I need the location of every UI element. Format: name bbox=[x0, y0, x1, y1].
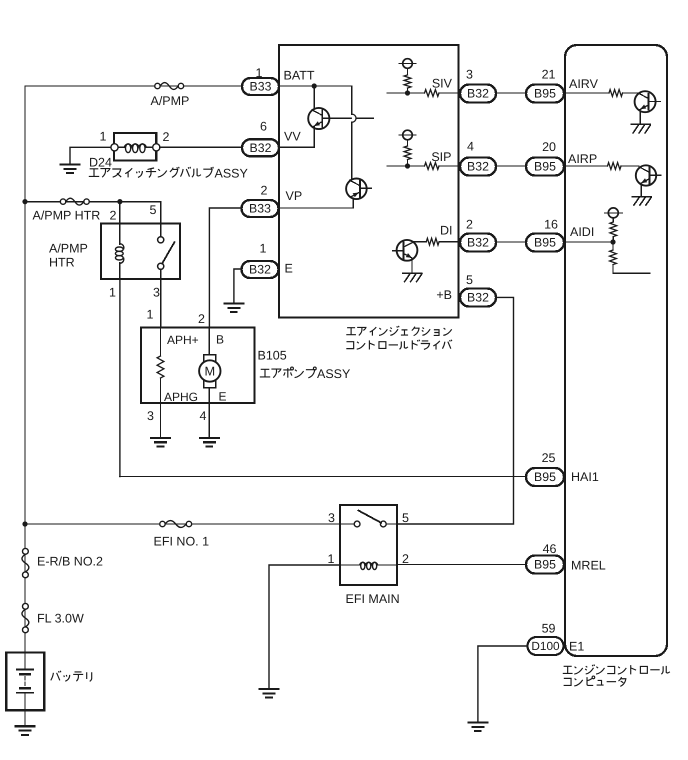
wire battery to ground bbox=[24, 710, 26, 725]
svg-text:25: 25 bbox=[542, 451, 556, 465]
svg-text:E1: E1 bbox=[569, 640, 584, 654]
EFI MAIN switch contacts bbox=[340, 521, 397, 527]
wire Q1 emitter to VV bbox=[279, 127, 314, 148]
svg-text:B32: B32 bbox=[249, 263, 271, 277]
svg-text:1: 1 bbox=[147, 308, 154, 322]
label driver (katakana line2) bbox=[346, 340, 452, 350]
connector B32 pin 4 (SIP) bbox=[460, 140, 496, 176]
transistor Q4 (AIRV) bbox=[635, 91, 656, 112]
svg-text:4: 4 bbox=[200, 409, 207, 423]
power symbol SIV pull-up bbox=[399, 59, 416, 69]
junction BATT node bbox=[312, 83, 317, 88]
wire +B to EFI MAIN pin5 bbox=[397, 297, 514, 524]
relay coil (A/PMP HTR) bbox=[115, 224, 123, 280]
label A/PMP HTR (relay) bbox=[49, 242, 88, 270]
label SIP bbox=[431, 150, 451, 164]
wire Q5 emitter to ground bbox=[640, 185, 642, 196]
wire Q1 base stub with hop bbox=[322, 114, 373, 122]
junction bus to A/PMP HTR bbox=[22, 199, 27, 204]
svg-text:E: E bbox=[219, 390, 227, 404]
connector B95 pin 16 (AIDI) bbox=[526, 218, 564, 252]
ground EFI MAIN bbox=[260, 689, 279, 698]
svg-text:5: 5 bbox=[402, 511, 409, 525]
wire DI to ECU bbox=[496, 241, 527, 243]
EFI MAIN switch blade bbox=[358, 511, 381, 523]
wire relay pin1 down bbox=[119, 279, 121, 477]
pin label B105-4 bbox=[200, 409, 207, 423]
label VV bbox=[284, 130, 301, 144]
label APH+ bbox=[167, 333, 199, 347]
wire B105 pin3 to ground bbox=[160, 403, 162, 437]
svg-text:B33: B33 bbox=[250, 80, 272, 94]
svg-text:16: 16 bbox=[544, 218, 558, 232]
fusible link FL 3.0W bbox=[22, 603, 84, 632]
svg-text:1: 1 bbox=[100, 130, 107, 144]
ground B105 pin4 bbox=[200, 438, 219, 447]
wire A/PMP HTR feed bbox=[25, 202, 161, 224]
ground battery bbox=[16, 726, 35, 735]
coil L1 in D24 bbox=[118, 144, 154, 153]
svg-text:HTR: HTR bbox=[49, 256, 75, 270]
pin label relay-1 bbox=[109, 286, 116, 300]
svg-text:D24: D24 bbox=[89, 156, 112, 170]
svg-text:EFI MAIN: EFI MAIN bbox=[346, 592, 400, 606]
svg-text:B95: B95 bbox=[534, 558, 556, 572]
component D24 box (air switching valve) bbox=[114, 133, 156, 161]
connector B95 pin 21 (AIRV) bbox=[526, 68, 564, 103]
connector D100 pin 59 (E1) bbox=[528, 622, 564, 656]
wire SIV internal bbox=[387, 92, 458, 94]
wire SIV to ECU bbox=[496, 92, 527, 94]
junction A/PMP HTR to relay coil bbox=[117, 199, 122, 224]
wire relay pin3 to B105 pin1 bbox=[160, 279, 162, 328]
svg-text:3: 3 bbox=[153, 286, 160, 300]
svg-text:A/PMP HTR: A/PMP HTR bbox=[33, 209, 101, 223]
fuse A/PMP HTR bbox=[33, 198, 101, 222]
wire AIRV internal bbox=[565, 92, 638, 94]
pin label D24-1 bbox=[100, 130, 107, 144]
svg-text:20: 20 bbox=[542, 140, 556, 154]
pin label B105-2 bbox=[198, 312, 205, 326]
IC box air injection control driver bbox=[279, 45, 459, 318]
svg-text:APH+: APH+ bbox=[167, 333, 199, 347]
label ECU (katakana line2) bbox=[564, 676, 626, 686]
label VP bbox=[286, 189, 303, 203]
label DI bbox=[440, 224, 453, 238]
svg-text:B95: B95 bbox=[534, 470, 556, 484]
pin label relay-3 bbox=[153, 286, 160, 300]
wire D24 pin2 to VV connector bbox=[160, 146, 242, 148]
label MREL bbox=[571, 559, 606, 573]
ground E1 bbox=[468, 723, 487, 732]
wire SIP to ECU bbox=[496, 165, 527, 167]
transistor Q5 (AIRP) bbox=[636, 165, 656, 185]
svg-text:21: 21 bbox=[542, 68, 556, 82]
svg-text:EFI NO. 1: EFI NO. 1 bbox=[154, 535, 210, 549]
resistor AIDI lower bbox=[610, 242, 617, 273]
label AIRP bbox=[568, 152, 597, 166]
resistor AIDI pull-up bbox=[610, 218, 617, 242]
connector B33 pin 1 (BATT) bbox=[242, 66, 279, 95]
svg-text:2: 2 bbox=[261, 184, 268, 198]
label HAI1 bbox=[571, 470, 599, 484]
power symbol SIP pull-up bbox=[399, 130, 416, 140]
wire SIP internal bbox=[387, 165, 458, 167]
svg-text:2: 2 bbox=[466, 218, 473, 232]
svg-text:A/PMP: A/PMP bbox=[151, 94, 190, 108]
motor M1 (air pump) bbox=[199, 328, 220, 404]
connector B32 pin 5 (+B) bbox=[460, 273, 496, 307]
EFI MAIN coil bbox=[340, 562, 397, 569]
wire relay pin1 to HAI1 bbox=[120, 476, 526, 478]
svg-text:SIP: SIP bbox=[431, 150, 451, 164]
power symbol AIDI pull-up bbox=[605, 208, 623, 218]
pin label EFI-2 bbox=[402, 552, 409, 566]
resistor SIV pull-up bbox=[404, 68, 411, 93]
wire BATT branch down to Q2 bbox=[351, 86, 353, 179]
svg-text:HAI1: HAI1 bbox=[571, 470, 599, 484]
wire EFI MAIN pin1 to ground bbox=[269, 565, 340, 688]
svg-text:AIRV: AIRV bbox=[569, 77, 599, 91]
svg-text:B95: B95 bbox=[534, 87, 556, 101]
resistor DI bbox=[426, 238, 439, 245]
wire D24 pin1 to ground bbox=[70, 147, 115, 163]
wire Q2 emitter to VP bbox=[279, 198, 353, 208]
junction AIDI bbox=[610, 239, 615, 244]
label air pump assy (katakana) bbox=[260, 367, 351, 381]
relay switch contact lower bbox=[158, 263, 164, 279]
wire Q3 base stub bbox=[393, 250, 404, 252]
svg-text:2: 2 bbox=[198, 312, 205, 326]
wire Q5 base stub bbox=[649, 174, 660, 176]
svg-text:1: 1 bbox=[256, 66, 263, 80]
wire B105 pin4 to ground bbox=[208, 403, 210, 437]
svg-text:VP: VP bbox=[286, 189, 303, 203]
ground D24 bbox=[61, 165, 80, 174]
relay EFI MAIN box bbox=[340, 505, 397, 585]
pin circle D24-1 bbox=[111, 144, 118, 151]
svg-text:2: 2 bbox=[163, 130, 170, 144]
svg-text:APHG: APHG bbox=[164, 390, 198, 404]
svg-text:B32: B32 bbox=[250, 141, 272, 155]
svg-text:M: M bbox=[204, 364, 215, 379]
svg-text:4: 4 bbox=[467, 140, 474, 154]
connector B32 pin 6 (VV) bbox=[242, 120, 279, 157]
ground driver E bbox=[224, 304, 243, 313]
transistor Q2 bbox=[346, 179, 367, 200]
svg-text:E-R/B NO.2: E-R/B NO.2 bbox=[37, 555, 103, 569]
ground Q5 (slash) bbox=[632, 197, 651, 206]
svg-text:5: 5 bbox=[150, 203, 157, 217]
label driver (katakana line1) bbox=[346, 326, 451, 336]
connector B95 pin 25 (HAI1) bbox=[526, 451, 564, 486]
component B105 box (air pump assy) bbox=[141, 328, 255, 404]
wire main battery bus (left vertical) bbox=[24, 86, 26, 653]
svg-text:59: 59 bbox=[542, 622, 556, 636]
connector B33 pin 2 (VP) bbox=[242, 184, 279, 218]
wire VP to B105 pin B bbox=[209, 208, 241, 328]
wire Q3 emitter to ground bbox=[411, 261, 413, 273]
relay switch contact upper bbox=[158, 224, 164, 243]
label E1 bbox=[569, 640, 584, 654]
label E (driver) bbox=[285, 262, 293, 276]
label EFI MAIN bbox=[346, 592, 400, 606]
junction SIP bbox=[405, 163, 410, 168]
svg-text:B32: B32 bbox=[467, 291, 489, 305]
label air switching valve assy (katakana) bbox=[89, 166, 249, 180]
label B (B105) bbox=[216, 333, 224, 347]
pin label D24-2 bbox=[163, 130, 170, 144]
label AIRV bbox=[569, 77, 599, 91]
wire DI internal bbox=[414, 241, 459, 243]
ground B105 pin3 bbox=[151, 438, 170, 447]
resistor in B105 bbox=[157, 328, 164, 404]
fusible link E-R/B NO.2 bbox=[22, 548, 103, 577]
wire AIDI internal bbox=[565, 241, 613, 243]
resistor AIRP bbox=[608, 163, 622, 170]
svg-text:2: 2 bbox=[110, 209, 117, 223]
wire D100 to ground bbox=[478, 646, 528, 722]
connector B32 pin 3 (SIV) bbox=[460, 68, 496, 103]
wire AIDI lower stub bbox=[613, 272, 650, 274]
svg-text:B: B bbox=[216, 333, 224, 347]
wire E to ground bbox=[234, 269, 242, 303]
svg-text:AIRP: AIRP bbox=[568, 152, 597, 166]
label AIDI bbox=[570, 225, 594, 239]
pin label B105-1 bbox=[147, 308, 154, 322]
svg-text:1: 1 bbox=[109, 286, 116, 300]
connector B32 pin 1 (E) bbox=[242, 242, 279, 279]
fuse EFI NO. 1 bbox=[154, 521, 210, 549]
pin label relay-5 bbox=[150, 203, 157, 217]
svg-text:AIDI: AIDI bbox=[570, 225, 594, 239]
ground Q4 (slash) bbox=[631, 124, 650, 133]
svg-text:D100: D100 bbox=[531, 639, 560, 653]
wire EFI NO.1 feed bbox=[25, 523, 340, 525]
pin label EFI-3 bbox=[328, 511, 335, 525]
svg-text:3: 3 bbox=[466, 68, 473, 82]
pin label relay-2 bbox=[110, 209, 117, 223]
svg-text:B32: B32 bbox=[467, 87, 489, 101]
svg-text:B33: B33 bbox=[249, 202, 271, 216]
transistor Q1 bbox=[308, 86, 329, 129]
svg-text:B95: B95 bbox=[534, 160, 556, 174]
pin label EFI-1 bbox=[328, 552, 335, 566]
svg-text:E: E bbox=[285, 262, 293, 276]
svg-text:ASSY: ASSY bbox=[317, 367, 351, 381]
wire Q4 emitter to ground bbox=[639, 112, 641, 124]
svg-text:VV: VV bbox=[284, 130, 301, 144]
label battery (katakana) bbox=[51, 671, 92, 682]
svg-text:MREL: MREL bbox=[571, 559, 606, 573]
svg-text:BATT: BATT bbox=[284, 69, 315, 83]
transistor Q3 (DI) bbox=[397, 240, 418, 261]
label +B bbox=[436, 288, 452, 302]
ECU box engine control computer bbox=[565, 45, 667, 656]
label E (B105) bbox=[219, 390, 227, 404]
connector B32 pin 2 (DI) bbox=[460, 218, 496, 252]
wire AIRP internal bbox=[565, 165, 639, 167]
pin label EFI-5 bbox=[402, 511, 409, 525]
label B105 bbox=[258, 349, 287, 363]
resistor SIV bbox=[425, 90, 440, 97]
svg-text:3: 3 bbox=[147, 409, 154, 423]
svg-text:B32: B32 bbox=[467, 160, 489, 174]
svg-text:6: 6 bbox=[260, 120, 267, 134]
junction bus to EFI NO.1 bbox=[22, 521, 27, 526]
svg-text:B105: B105 bbox=[258, 349, 287, 363]
battery bbox=[6, 653, 44, 711]
fuse A/PMP bbox=[151, 83, 190, 108]
wire Q4 base stub bbox=[649, 101, 661, 103]
label BATT bbox=[284, 69, 315, 83]
svg-text:1: 1 bbox=[260, 242, 267, 256]
svg-text:B95: B95 bbox=[534, 236, 556, 250]
wire EFI MAIN pin2 to MREL bbox=[397, 564, 526, 566]
connector B95 pin 20 (AIRP) bbox=[526, 140, 564, 176]
wire A/PMP feed from bus bbox=[25, 85, 242, 87]
resistor SIP pull-up bbox=[404, 140, 411, 166]
pin circle D24-2 bbox=[153, 144, 160, 151]
junction SIV bbox=[405, 90, 410, 95]
svg-text:SIV: SIV bbox=[432, 77, 453, 91]
svg-text:1: 1 bbox=[328, 552, 335, 566]
svg-text:+B: +B bbox=[436, 288, 452, 302]
connector B95 pin 46 (MREL) bbox=[526, 542, 564, 574]
svg-text:ASSY: ASSY bbox=[215, 166, 249, 180]
wire Q2 base stub bbox=[360, 187, 371, 189]
label D24 bbox=[89, 156, 112, 170]
svg-text:46: 46 bbox=[543, 542, 557, 556]
pin label B105-3 bbox=[147, 409, 154, 423]
svg-text:B32: B32 bbox=[467, 236, 489, 250]
label ECU (katakana line1) bbox=[563, 664, 670, 674]
label SIV bbox=[432, 77, 453, 91]
relay A/PMP HTR box bbox=[101, 224, 180, 280]
ground Q3 (slash) bbox=[403, 273, 422, 282]
svg-text:DI: DI bbox=[440, 224, 453, 238]
wire BATT internal bbox=[279, 85, 352, 87]
label APHG bbox=[164, 390, 198, 404]
svg-text:3: 3 bbox=[328, 511, 335, 525]
relay switch blade bbox=[162, 242, 174, 263]
resistor SIP bbox=[425, 163, 440, 170]
svg-text:FL 3.0W: FL 3.0W bbox=[37, 612, 84, 626]
resistor AIRV bbox=[609, 90, 623, 97]
svg-text:A/PMP: A/PMP bbox=[49, 242, 88, 256]
svg-text:5: 5 bbox=[466, 273, 473, 287]
